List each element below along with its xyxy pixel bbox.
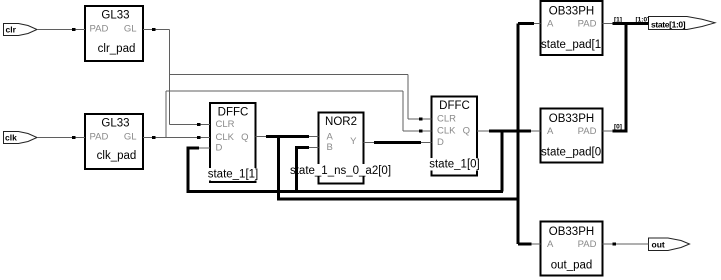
buffer U6 OB33PH state_pad[1 <box>541 1 603 55</box>
net clk : wire port to clk_pad PAD <box>37 137 85 139</box>
net state_1[1] (Q1) : bold to out_pad A <box>518 243 532 246</box>
net state[1] pad out : thin stub <box>603 23 615 25</box>
net clr : wire to DFFC1 CLR <box>170 124 211 126</box>
svg-text:CLR: CLR <box>216 119 235 130</box>
label state_1[1] <box>207 168 260 181</box>
net state_1[1] (Q1) : bold bottom run <box>277 198 518 201</box>
output port out <box>649 238 690 251</box>
net state_1[1] (Q1) : bold to state_pad[1] A <box>518 22 534 25</box>
marker out_pad PAD <box>613 243 617 246</box>
svg-text:CLK: CLK <box>437 126 456 137</box>
net clr : wire long branch <box>170 74 409 76</box>
svg-text:NOR2: NOR2 <box>325 116 357 128</box>
svg-text:Q: Q <box>241 132 248 143</box>
net state_1[0] (Q2) : thin stub to NOR2 B <box>309 147 319 149</box>
net state_1[0] (Q2) : bold bottom run <box>188 190 503 193</box>
net state_1_ns_0_a2[0] (Y) : thin stub from Y <box>364 142 375 144</box>
net state_1[0] (Q2) : bold vertical up to D1 <box>187 148 190 193</box>
svg-text:clr_pad: clr_pad <box>98 43 136 55</box>
net state_1[1] (Q1) : thin stub Q1 to NOR2 A <box>256 136 319 138</box>
svg-text:PAD: PAD <box>578 239 597 250</box>
net state_1[1] (Q1) : thin stub to out_pad A <box>532 243 541 245</box>
svg-text:state_1[0]: state_1[0] <box>429 159 480 171</box>
svg-text:D: D <box>437 137 444 148</box>
net out : wire out_pad PAD to port <box>603 243 649 245</box>
svg-text:clk: clk <box>5 133 17 143</box>
net state[0] : bold joint to bus <box>614 130 628 133</box>
marker DFFC1 CLR <box>197 123 201 126</box>
net state[0] pad out : thin stub <box>603 130 615 132</box>
net clr : wire to DFFC2 CLR <box>408 118 432 120</box>
marker clk port-pad <box>72 136 76 139</box>
marker clk GL out <box>152 136 156 139</box>
svg-text:PAD: PAD <box>90 132 109 143</box>
svg-text:OB33PH: OB33PH <box>549 226 594 238</box>
net state_1[0] (Q2) : bold trunk to pad <box>489 130 531 133</box>
svg-text:GL33: GL33 <box>101 10 129 22</box>
net clr : wire port to clr_pad PAD <box>37 29 85 31</box>
marker clr GL out <box>152 28 156 31</box>
buffer U8 OB33PH out_pad <box>541 222 603 276</box>
svg-text:OB33PH: OB33PH <box>549 113 594 125</box>
net clk : wire drop to DFFC2 <box>402 91 404 131</box>
flip-flop U5 DFFC state_1[0] <box>432 97 478 176</box>
svg-text:Y: Y <box>350 136 357 147</box>
svg-text:out: out <box>652 240 665 250</box>
svg-text:D: D <box>216 143 223 154</box>
net state_1[1] (Q1) : bold vertical right <box>517 24 520 245</box>
net clk : wire long branch <box>166 90 403 92</box>
svg-text:out_pad: out_pad <box>551 260 593 272</box>
buffer U7 OB33PH state_pad[0 <box>541 109 603 163</box>
buffer U1 GL33 clr_pad <box>85 6 143 61</box>
input port clr <box>4 24 38 36</box>
net clr : wire drop to DFFC2 <box>407 75 409 120</box>
net clk : wire branch up <box>165 91 167 138</box>
svg-text:CLK: CLK <box>216 132 235 143</box>
svg-text:state_pad[1: state_pad[1 <box>541 39 601 51</box>
svg-text:DFFC: DFFC <box>218 107 249 119</box>
net clk : wire to DFFC2 CLK <box>403 130 432 132</box>
marker state_pad[1] PAD <box>613 22 617 25</box>
svg-text:A: A <box>547 126 554 137</box>
bus state : bold vertical <box>625 24 628 132</box>
net state_1[0] (Q2) : bold vertical up to NOR2 B <box>295 148 298 193</box>
gate U4 NOR2 state_1_ns_0_a2[0] <box>319 113 364 184</box>
marker DFFC1 CLK <box>197 136 201 139</box>
svg-text:GL33: GL33 <box>101 118 129 130</box>
net clk : wire GL out to DFFC1 CLK <box>143 137 210 139</box>
net state_1[1] (Q1) : thin stub to state_pad[1] A <box>534 23 541 25</box>
svg-text:state_1_ns_0_a2[0]: state_1_ns_0_a2[0] <box>290 165 391 177</box>
svg-text:DFFC: DFFC <box>439 100 470 112</box>
svg-text:state_pad[0: state_pad[0 <box>541 147 601 159</box>
net state_1[1] (Q1) : bold vertical down <box>277 135 280 200</box>
svg-text:PAD: PAD <box>578 126 597 137</box>
svg-text:GL: GL <box>124 132 137 143</box>
net clr : wire GL out to corner <box>143 29 170 31</box>
svg-text:B: B <box>327 142 333 153</box>
pin junction markers <box>72 22 616 246</box>
svg-text:A: A <box>327 132 334 143</box>
net state_1_ns_0_a2[0] (Y) : thin stub to DFFC2 D <box>421 142 432 144</box>
svg-text:state_1[1]: state_1[1] <box>208 169 259 181</box>
input port clk <box>4 132 38 144</box>
svg-text:Q: Q <box>463 126 470 137</box>
net state_1[0] (Q2) : thin stub to DFFC1 D <box>199 147 210 149</box>
marker DFFC2 CLK <box>419 130 423 133</box>
net state_1[0] (Q2) : bold vertical down <box>501 131 504 192</box>
net state_1[0] (Q2) : bold to D1 marker <box>187 147 200 150</box>
marker clr port-pad <box>72 28 76 31</box>
svg-text:PAD: PAD <box>578 19 597 30</box>
svg-text:A: A <box>547 239 554 250</box>
net state_1[1] (Q1) : bold trunk <box>266 135 309 138</box>
net state_1[0] (Q2) : bold to B marker <box>295 146 309 149</box>
svg-text:A: A <box>547 19 554 30</box>
svg-text:PAD: PAD <box>90 24 109 35</box>
net state_1_ns_0_a2[0] (Y) : bold trunk <box>374 141 421 144</box>
svg-text:clr: clr <box>6 25 17 35</box>
svg-text:[1]: [1] <box>614 17 622 24</box>
svg-text:clk_pad: clk_pad <box>97 150 137 162</box>
flip-flop U3 DFFC state_1[1] <box>210 103 256 182</box>
bus state : bold horizontal to port <box>614 22 649 25</box>
marker DFFC2 CLR <box>419 118 423 121</box>
svg-text:OB33PH: OB33PH <box>549 6 594 18</box>
svg-text:GL: GL <box>124 24 137 35</box>
output port state[1:0] <box>649 17 716 30</box>
net state_1[0] (Q2) : thin stub to state_pad[0] A <box>531 130 541 132</box>
buffer U2 GL33 clk_pad <box>85 114 143 169</box>
net clr : wire vertical drop <box>169 30 171 125</box>
marker state_pad[0] PAD <box>613 130 617 133</box>
svg-text:[0]: [0] <box>614 124 622 131</box>
svg-text:state[1:0]: state[1:0] <box>651 20 686 30</box>
label state_1[0] <box>429 158 480 171</box>
svg-text:CLR: CLR <box>437 114 456 125</box>
label state_1_ns_0_a2[0] <box>288 164 392 177</box>
net state_1[0] (Q2) : thin stub from Q2 <box>477 130 489 132</box>
svg-text:[1:0]: [1:0] <box>636 17 650 24</box>
